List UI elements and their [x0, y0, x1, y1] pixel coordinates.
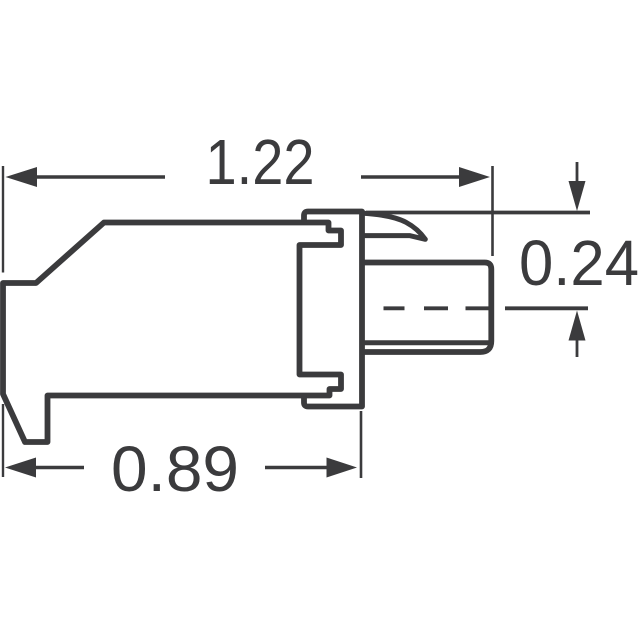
barrel (ferrule) outline	[362, 263, 491, 353]
dashed centerline	[384, 306, 490, 310]
arrow right (0.89)	[327, 458, 358, 478]
arrow left (1.22)	[6, 167, 38, 187]
svg-text:0.89: 0.89	[111, 433, 239, 505]
extension line right (0.89)	[360, 411, 363, 478]
up arrow head (0.24)	[569, 311, 586, 341]
arrow right (1.22)	[459, 167, 490, 187]
extension line left (1.22)	[2, 166, 4, 273]
reference line upper (0.24)	[366, 211, 590, 215]
latch clip	[364, 213, 426, 239]
front flange	[304, 212, 362, 407]
up arrow tail (0.24)	[576, 337, 579, 357]
extension line left (0.89)	[2, 404, 4, 477]
extension line right (1.22)	[491, 166, 494, 256]
dimension line 0.89 left segment	[30, 466, 84, 470]
svg-text:1.22: 1.22	[206, 126, 315, 198]
dimension line 1.22 left segment	[30, 175, 165, 179]
arrow left (0.89)	[5, 458, 36, 478]
dimension line 1.22 right segment	[361, 175, 462, 179]
svg-text:0.24: 0.24	[519, 227, 639, 299]
down arrow head (0.24)	[569, 181, 586, 211]
dimension line 0.89 right segment	[265, 466, 330, 470]
down arrow tail (0.24)	[576, 162, 579, 183]
reference line lower (0.24)	[505, 306, 588, 310]
connector body outline	[3, 223, 341, 443]
barrel inner bottom line	[362, 340, 489, 345]
